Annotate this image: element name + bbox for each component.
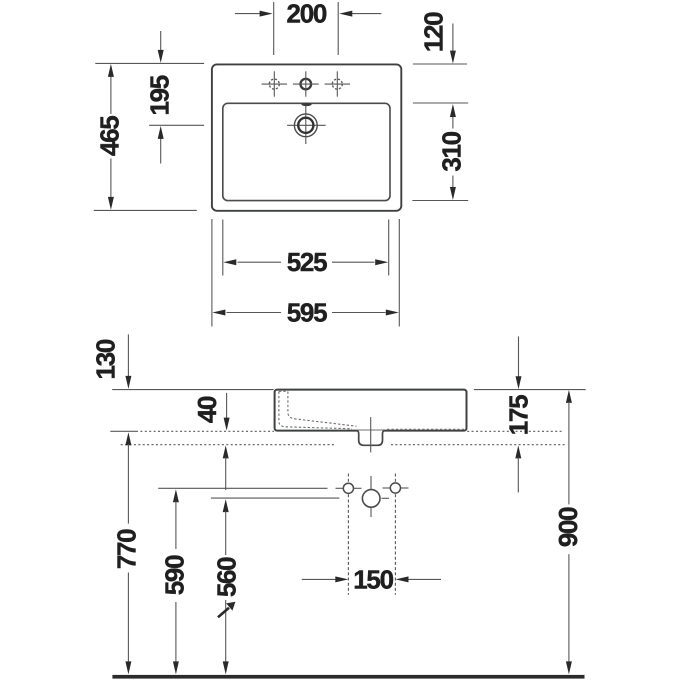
direction arrow (north-east) xyxy=(218,608,229,617)
counter level line (solid then dotted) xyxy=(110,430,563,432)
dim 130 arrow xyxy=(127,334,129,377)
dim 595 extension lines xyxy=(212,219,399,327)
hidden bowl profile (dashed) xyxy=(279,391,464,429)
vertical dashed extension through bolt holes xyxy=(348,474,395,595)
right extension lines (plan) xyxy=(412,64,468,201)
svg-text:120: 120 xyxy=(419,12,449,52)
svg-text:195: 195 xyxy=(145,75,175,115)
dim 900 xyxy=(566,390,572,403)
dim 150 xyxy=(302,578,441,580)
dim 525 xyxy=(238,261,375,263)
svg-text:310: 310 xyxy=(437,131,467,171)
dim 560 xyxy=(223,499,229,512)
tap hole right (dashed) xyxy=(325,71,350,96)
drain outer circle xyxy=(294,114,317,137)
dim 40 xyxy=(226,393,228,420)
svg-text:130: 130 xyxy=(91,339,121,379)
trap centerline xyxy=(370,417,372,452)
left extension line at rim level xyxy=(112,389,273,391)
svg-text:560: 560 xyxy=(212,557,242,597)
tap hole middle (solid) xyxy=(301,79,312,90)
bolt hole right xyxy=(390,483,400,493)
dim 525 extension lines xyxy=(223,220,389,276)
basin outer outline (plan) xyxy=(212,64,401,210)
tap hole left (dashed) xyxy=(262,71,287,96)
dim 595 xyxy=(227,312,386,314)
svg-text:595: 595 xyxy=(287,298,327,328)
lower level dotted line (40 below) xyxy=(121,444,565,446)
dim 200 extension lines xyxy=(274,2,339,55)
svg-text:770: 770 xyxy=(112,529,142,569)
dim 770 xyxy=(125,432,131,445)
bolt hole left xyxy=(343,483,353,493)
right extension line at rim level xyxy=(474,389,586,391)
basin inner bowl outline (plan) xyxy=(223,103,390,200)
svg-text:150: 150 xyxy=(353,564,393,594)
dim 120 arrow xyxy=(452,24,454,53)
dim 175 xyxy=(518,336,520,377)
drain crosshair xyxy=(287,105,326,144)
overflow slot xyxy=(301,103,311,106)
svg-text:200: 200 xyxy=(287,0,327,29)
svg-text:465: 465 xyxy=(95,116,125,156)
svg-text:525: 525 xyxy=(287,247,327,277)
svg-text:40: 40 xyxy=(192,396,222,423)
dim 310 xyxy=(452,115,454,190)
svg-text:590: 590 xyxy=(160,555,190,595)
mounting holes level lines xyxy=(158,487,327,489)
crosshair dashes around holes xyxy=(336,488,409,498)
drain inner circle xyxy=(298,118,313,133)
svg-text:900: 900 xyxy=(553,507,583,547)
dim 195 xyxy=(160,31,162,164)
vertical centerline through middle hole xyxy=(370,476,372,517)
left extension lines (plan) xyxy=(94,63,204,210)
drain trap (below basin) xyxy=(356,430,384,445)
dim 465 xyxy=(110,75,112,199)
svg-text:175: 175 xyxy=(504,395,534,435)
dim 200 arrows xyxy=(235,13,381,15)
middle drain hole xyxy=(362,490,380,508)
basin body (side) xyxy=(275,390,467,431)
floor line xyxy=(112,675,584,679)
dim 590 xyxy=(173,489,179,502)
